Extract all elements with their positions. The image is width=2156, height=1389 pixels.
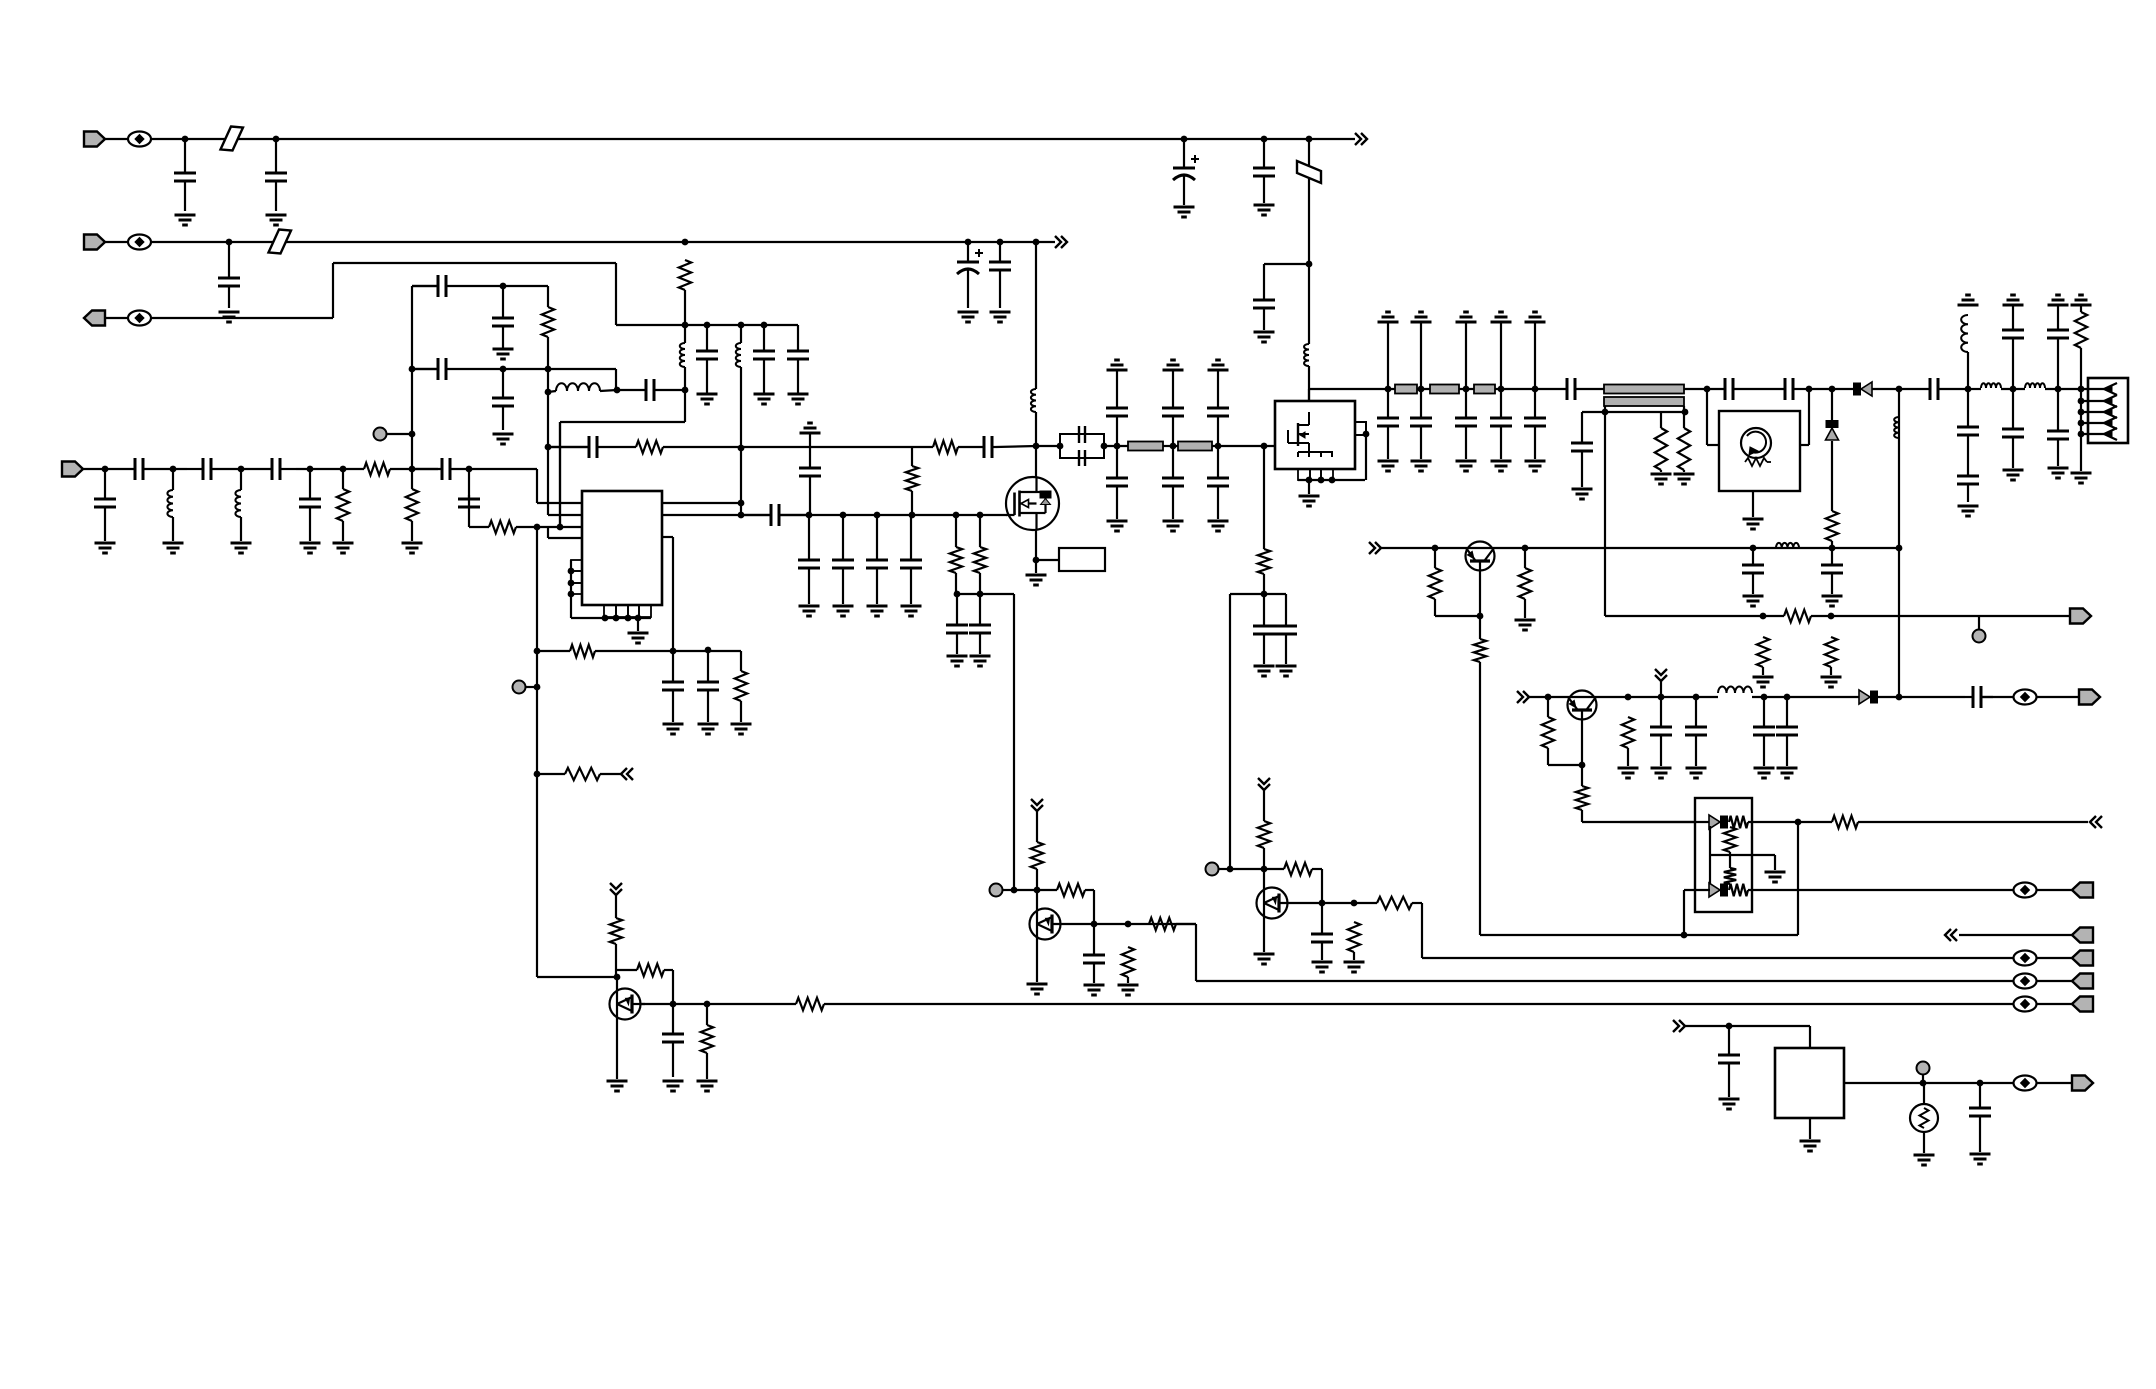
node 537-651 (534, 648, 541, 655)
wire R14 top (1683, 412, 1685, 428)
wire y651 corner (740, 651, 742, 671)
node 537-687 (534, 684, 541, 691)
capacitor C52 (2047, 305, 2069, 352)
node bpin1 (602, 615, 609, 622)
node 537-774 (534, 771, 541, 778)
wire x1605 long (1604, 412, 1606, 616)
node 1230-869 (1227, 866, 1234, 873)
ground C13 (493, 349, 514, 359)
wire Q5 vert (1036, 890, 1038, 982)
circulator symbol (1741, 428, 1771, 466)
diode D2 (1853, 382, 1872, 396)
ground bank2 1466 (1456, 461, 1477, 471)
wire R10 stub (955, 573, 957, 594)
node 1094-924 (1091, 921, 1098, 928)
ground L7 (231, 543, 252, 553)
ground col1218 (1208, 521, 1229, 531)
resistor R24 (1576, 786, 1588, 810)
IC U1 pin box B3 (628, 605, 639, 617)
inductor L6 (167, 490, 173, 517)
node ant 1968 (1965, 386, 1972, 393)
ground L6 (163, 543, 184, 553)
wire ant pin3 (2081, 411, 2104, 413)
capacitor C36 (1106, 446, 1128, 519)
node 1787-697 (1784, 694, 1791, 701)
wire bank2 up 1421 (1420, 322, 1422, 389)
wire blk to bank (1104, 445, 1128, 447)
resistor R39 (1149, 918, 1176, 930)
ground C5 (1254, 332, 1275, 342)
node supply2 B (682, 239, 689, 246)
wire PA output line c (1809, 388, 1859, 390)
node Q2 base (1477, 613, 1484, 620)
capacitor C32 (969, 594, 991, 654)
ground circulator (1743, 519, 1764, 529)
node PA in (1261, 443, 1268, 450)
wire input chain a (83, 468, 118, 470)
wire fb mid right (503, 368, 616, 370)
wire R43 in (1354, 902, 1377, 904)
IC U1 pin box L1 (571, 560, 582, 571)
node PSU cap (1726, 1023, 1733, 1030)
antenna pin glyph 3 (2104, 406, 2117, 418)
ground U1 (628, 633, 649, 643)
resistor R20 (1784, 610, 1811, 622)
node lpin3 (568, 591, 575, 598)
resistor R11 (974, 547, 986, 573)
node 1354-903 (1351, 900, 1358, 907)
wire PA tab loop (1365, 435, 1367, 480)
wire 1661 stub (1660, 681, 1662, 697)
ground C2 (266, 215, 287, 225)
capacitor C14 (412, 358, 503, 380)
wire P3 to bead (105, 317, 128, 319)
node bpin3 (625, 615, 632, 622)
inductor L12 (1776, 543, 1799, 548)
wire Q4 vert (616, 977, 618, 1079)
wire 869 bus (1230, 868, 1284, 870)
node ant pin3 (2078, 409, 2085, 416)
wire ctl4 (y1004) b (824, 1003, 2014, 1005)
wire 1966 link (1967, 352, 1969, 389)
node 1037-890 (1034, 887, 1041, 894)
capacitor C59 (1650, 697, 1672, 766)
wire RT1 top (1923, 1083, 1925, 1104)
wire L4 stub bot (740, 367, 742, 448)
node 741-515 (738, 512, 745, 519)
wire Q4 chev stub (615, 895, 617, 918)
node PA p3 (1329, 477, 1336, 484)
resistor R6 (489, 521, 516, 533)
PA drain tab (1355, 422, 1366, 435)
wire TL2 out (1212, 445, 1275, 447)
wire RX line a (1529, 696, 1718, 698)
node blk L (1057, 443, 1064, 450)
wire ant line 3 (2045, 388, 2082, 390)
node 616-390 (614, 387, 621, 394)
wire 1309 to 1264 jog (1264, 263, 1309, 265)
resistor R25 (1622, 717, 1634, 748)
ground C31 (947, 656, 968, 666)
wire col1117 upper (1116, 370, 1118, 408)
ground C4 (1254, 205, 1275, 215)
node ant 2058 (2055, 386, 2062, 393)
wire R37 drop (1085, 889, 1094, 891)
ground col1173 (1163, 521, 1184, 531)
off-page arrow PSU (1673, 1020, 1685, 1032)
capacitor C4 (1253, 139, 1275, 203)
wire rail end drop (797, 325, 799, 350)
ground bank2 1421 (1411, 461, 1432, 471)
wire R3 top (342, 469, 344, 489)
wire circ in drop (1707, 389, 1719, 445)
node rail 685 (682, 322, 689, 329)
resistor R14 (1678, 428, 1690, 470)
wire x537 to corner (537, 976, 616, 978)
wire U7 out b (2036, 1082, 2072, 1084)
resistor R3 (337, 489, 349, 521)
node supply2 A (226, 239, 233, 246)
ground C21 (300, 543, 321, 553)
inductor L1 (PA choke) (1304, 344, 1309, 366)
wire x1014 drop (1013, 594, 1015, 890)
wire att in (1620, 821, 1710, 823)
node U7 out b (1977, 1080, 1984, 1087)
node 741-448 (738, 445, 745, 452)
wire supply2 drop to drain choke (1035, 242, 1037, 389)
wire bank2 up 1535 (1534, 322, 1536, 389)
capacitor C15 (492, 369, 514, 430)
wire fwd line a (1605, 615, 1784, 617)
wire ctl2b (2036, 957, 2072, 959)
node x1309 y264 (1306, 261, 1313, 268)
capacitor C11 (787, 350, 809, 394)
wire supply rail 1 (151, 138, 1355, 140)
wire 1309 down to PA choke (1308, 264, 1310, 344)
capacitor C66 (1311, 903, 1333, 960)
node 1684-412 (1682, 409, 1689, 416)
node g809 (806, 512, 813, 519)
wire R14 gstub (1683, 470, 1685, 472)
wire RX line4 (2036, 696, 2079, 698)
resistor R19 (1519, 568, 1531, 599)
node 707-1004 (704, 1001, 711, 1008)
wire col1218 upper (1217, 370, 1219, 408)
ground PA (1299, 496, 1320, 506)
wire R34 bot (706, 1053, 708, 1079)
node 1128-924 (1125, 921, 1132, 928)
node 1764-697 (1761, 694, 1768, 701)
resistor R38 (1122, 947, 1134, 977)
wire R12 to caps (1263, 574, 1265, 594)
wire R11 top (979, 515, 981, 547)
wire att low left (1684, 889, 1710, 891)
wire R13 top (1660, 412, 1662, 428)
wire R38 bot (1127, 977, 1129, 983)
node att out (1795, 819, 1802, 826)
wire R40 bot (1263, 848, 1265, 869)
wire L5 to cap (600, 390, 617, 391)
ground C28 (833, 606, 854, 616)
capacitor C17 (94, 469, 116, 541)
ground C8 (990, 312, 1011, 322)
ground ant2082 (2071, 473, 2092, 483)
capacitor C27 (798, 515, 820, 604)
ground R19 (1515, 620, 1536, 630)
ground C15 (493, 434, 514, 444)
ground RT1 (1914, 1155, 1935, 1165)
wire R11 stub (979, 573, 981, 594)
ground C65 (1084, 985, 1105, 995)
antenna pin glyph 5 (2104, 428, 2117, 440)
ground C71 (663, 724, 684, 734)
port P6 (TX out) (2079, 690, 2100, 705)
wire x537 long vertical (536, 527, 538, 977)
wire coupler tap left (1604, 406, 1606, 412)
node 1605-412 (1602, 409, 1609, 416)
ground-up col1173 (1163, 360, 1184, 370)
wire y651 a (537, 650, 570, 652)
wire x560 vert (559, 422, 561, 527)
wire U1 pin537 out (662, 536, 673, 538)
ground R42 (1344, 962, 1365, 972)
node 1322-903 (1319, 900, 1326, 907)
ground C10 (754, 394, 775, 404)
wire x412 vertical (411, 286, 413, 468)
node 1832-548 (1829, 545, 1836, 552)
wire P2 to bead (105, 241, 128, 243)
wire col1173 upper (1172, 370, 1174, 408)
wire choke to drain node (1035, 412, 1037, 446)
wire R4 to 412 (390, 468, 412, 470)
ground C42 (1276, 666, 1297, 676)
ground Q4 (607, 1081, 628, 1091)
wire ant pin5 (2081, 433, 2104, 435)
jumper J2 (1297, 161, 1321, 183)
wire Q2b long (1480, 662, 1684, 935)
port P8 (2072, 928, 2093, 943)
wire x548 drop (547, 286, 549, 307)
wire L6 top (172, 469, 174, 490)
capacitor C44 (1410, 389, 1432, 459)
circulator U5 body (1719, 411, 1800, 491)
resistor R31 (565, 768, 600, 780)
resistor R44 (570, 645, 595, 657)
node drain node (1033, 443, 1040, 450)
node in F (409, 466, 416, 473)
capacitor C60 (1685, 697, 1707, 766)
off-page arrow R31 (621, 768, 633, 780)
ground-up ant2013 (2003, 295, 2024, 305)
ferrite bead FB3 (128, 311, 151, 326)
PA pin box B1 (1298, 469, 1310, 480)
transistor Q3 (1568, 691, 1597, 720)
capacitor C51 (2002, 305, 2024, 352)
wire att R28 stub (1729, 855, 1731, 868)
wire L6 gnd (172, 517, 174, 541)
port P12 (PSU out) (2072, 1076, 2093, 1091)
wire source down (1035, 530, 1037, 573)
port P3 (control out) (84, 311, 105, 326)
wire 2013 link (2012, 352, 2014, 389)
IC U1 pin box B1 (604, 605, 616, 617)
wire R1 to rail (684, 290, 686, 325)
wire TP1 stub (386, 433, 412, 435)
transistor Q2 (1466, 542, 1495, 571)
wire R5 top (411, 469, 413, 489)
off-page arrow supply2 (1055, 236, 1067, 248)
wire R23 bot (1548, 748, 1582, 765)
capacitor C26 (799, 468, 821, 515)
ground C29 (867, 606, 888, 616)
wire R37 drop2 (1093, 890, 1095, 924)
node g843 (840, 512, 847, 519)
capacitor C39 (1207, 408, 1229, 446)
inductor L8 (1894, 417, 1899, 438)
ground-up bank2 1535 (1525, 312, 1546, 322)
wire 616 drop (615, 369, 617, 390)
wire R6 to pin (516, 526, 582, 528)
resistor R9 (933, 441, 958, 453)
resistor R34 (701, 1025, 713, 1053)
ground bank2 1501 (1491, 461, 1512, 471)
off-page arrow 1661 (1655, 669, 1667, 681)
port P4 (RF input) (62, 462, 83, 477)
wire P3 net (151, 317, 333, 319)
wire RX line3 (1981, 696, 2014, 698)
wire R31 left (537, 773, 565, 775)
wire ctl3 (y981) (1196, 980, 2014, 982)
node circ in (1704, 386, 1711, 393)
resistor R4 (364, 463, 390, 475)
wire Q5 out (1052, 923, 1196, 925)
wire R13 gstub (1660, 470, 1662, 472)
capacitor C19 (187, 458, 228, 480)
IC U1 pin box L3 (571, 583, 582, 594)
ground-up bank2 1421 (1411, 312, 1432, 322)
wire y903 corner (1412, 903, 1700, 958)
node src-560 (1033, 557, 1040, 564)
wire bias rail (616, 324, 798, 326)
resistor R40 (1258, 821, 1270, 848)
node pin3 (557, 524, 564, 531)
wire ant line 1 (1872, 388, 1930, 390)
ground C66 (1312, 962, 1333, 972)
wire L7 top (240, 469, 242, 490)
ground R14 (1674, 474, 1695, 484)
wire x537 upper (537, 469, 582, 503)
wire R32 bot (615, 944, 617, 977)
ground bank2 1388 (1378, 461, 1399, 471)
PA module U4 body (1275, 401, 1355, 469)
coupler bar top (1604, 385, 1684, 394)
resistor R30 (1832, 816, 1858, 828)
wire C49 link (1582, 411, 1605, 413)
wire R bottoms bus (956, 593, 1014, 595)
capacitor C20 (255, 458, 296, 480)
resistor R26 (1729, 816, 1748, 828)
node supply1 E (1306, 136, 1313, 143)
ground-up bank2 1501 (1491, 312, 1512, 322)
ground C9 (697, 394, 718, 404)
IC U1 pin box L2 (571, 571, 582, 583)
node 1696 (1693, 694, 1700, 701)
capacitor C35 (1106, 408, 1128, 446)
wire y651 b (595, 650, 741, 652)
wire supply rail 2 (151, 241, 1055, 243)
inductor L5 (556, 383, 600, 391)
inductor L3 (680, 343, 685, 367)
node bank2 1466 (1463, 386, 1470, 393)
wire L7 gnd (240, 517, 242, 541)
node det top (1829, 386, 1836, 393)
off-page arrow det (2090, 816, 2102, 828)
wire att low through (1748, 889, 1798, 891)
node PA tab (1363, 431, 1370, 438)
wire att loop right (1684, 822, 1798, 935)
resistor R10 (950, 547, 962, 573)
wire circ out rise (1808, 389, 1810, 445)
wire 810 stub (809, 433, 811, 468)
wire R7 to 741 (663, 446, 741, 448)
ground-up G810 (800, 423, 821, 433)
node 1899-548 (1896, 545, 1903, 552)
wire 2058 link (2057, 352, 2059, 389)
resistor R7 (636, 441, 663, 453)
resistor R42 (1348, 922, 1360, 952)
wire y447 ext (741, 446, 933, 448)
port P7 (RX out) (2072, 883, 2093, 898)
ground col1117 (1107, 521, 1128, 531)
capacitor C47 (1524, 389, 1546, 459)
wire TP4 stub (1218, 868, 1231, 870)
port P2 (supply in 2) (84, 235, 105, 250)
ground U7 (1800, 1141, 1821, 1151)
node 1661 (1658, 694, 1665, 701)
node 412-434 (409, 431, 416, 438)
wire R19 top (1524, 548, 1526, 568)
wire L3 stub bot (684, 367, 686, 390)
wire choke to PA node (1308, 366, 1310, 401)
node ant pin5 (2078, 431, 2085, 438)
transistor Q5 (1030, 909, 1061, 940)
node ant 2082 (2078, 386, 2085, 393)
wire TP3 stub (1002, 889, 1014, 891)
node supply2 C (965, 239, 972, 246)
transmission line TL5 (1474, 385, 1495, 394)
ground C57 (1743, 596, 1764, 606)
capacitor C41 (1253, 594, 1275, 664)
wire Q2 base (1479, 570, 1481, 616)
wire ctl4 (y1004) a (640, 1003, 796, 1005)
wire gate line (662, 514, 771, 516)
wire U1 gnd stub (637, 618, 639, 631)
ground R22 (1821, 677, 1842, 687)
ferrite bead FB8 (2014, 997, 2037, 1012)
resistor R12 (1258, 549, 1270, 574)
node 1899-697 (1896, 694, 1903, 701)
wire R8 bot (911, 491, 913, 515)
wire cap pair bus (1230, 593, 1286, 595)
wire input chain d (296, 468, 364, 470)
wire Q2b stub (1479, 616, 1481, 639)
off-page arrow ctl1 (1945, 929, 1957, 941)
DC block U3 frame (1060, 434, 1104, 458)
ground Q6 (1254, 954, 1275, 964)
wire input chain b (160, 468, 187, 470)
wire R25 bot (1627, 748, 1629, 766)
test point TP4 (1206, 863, 1219, 876)
